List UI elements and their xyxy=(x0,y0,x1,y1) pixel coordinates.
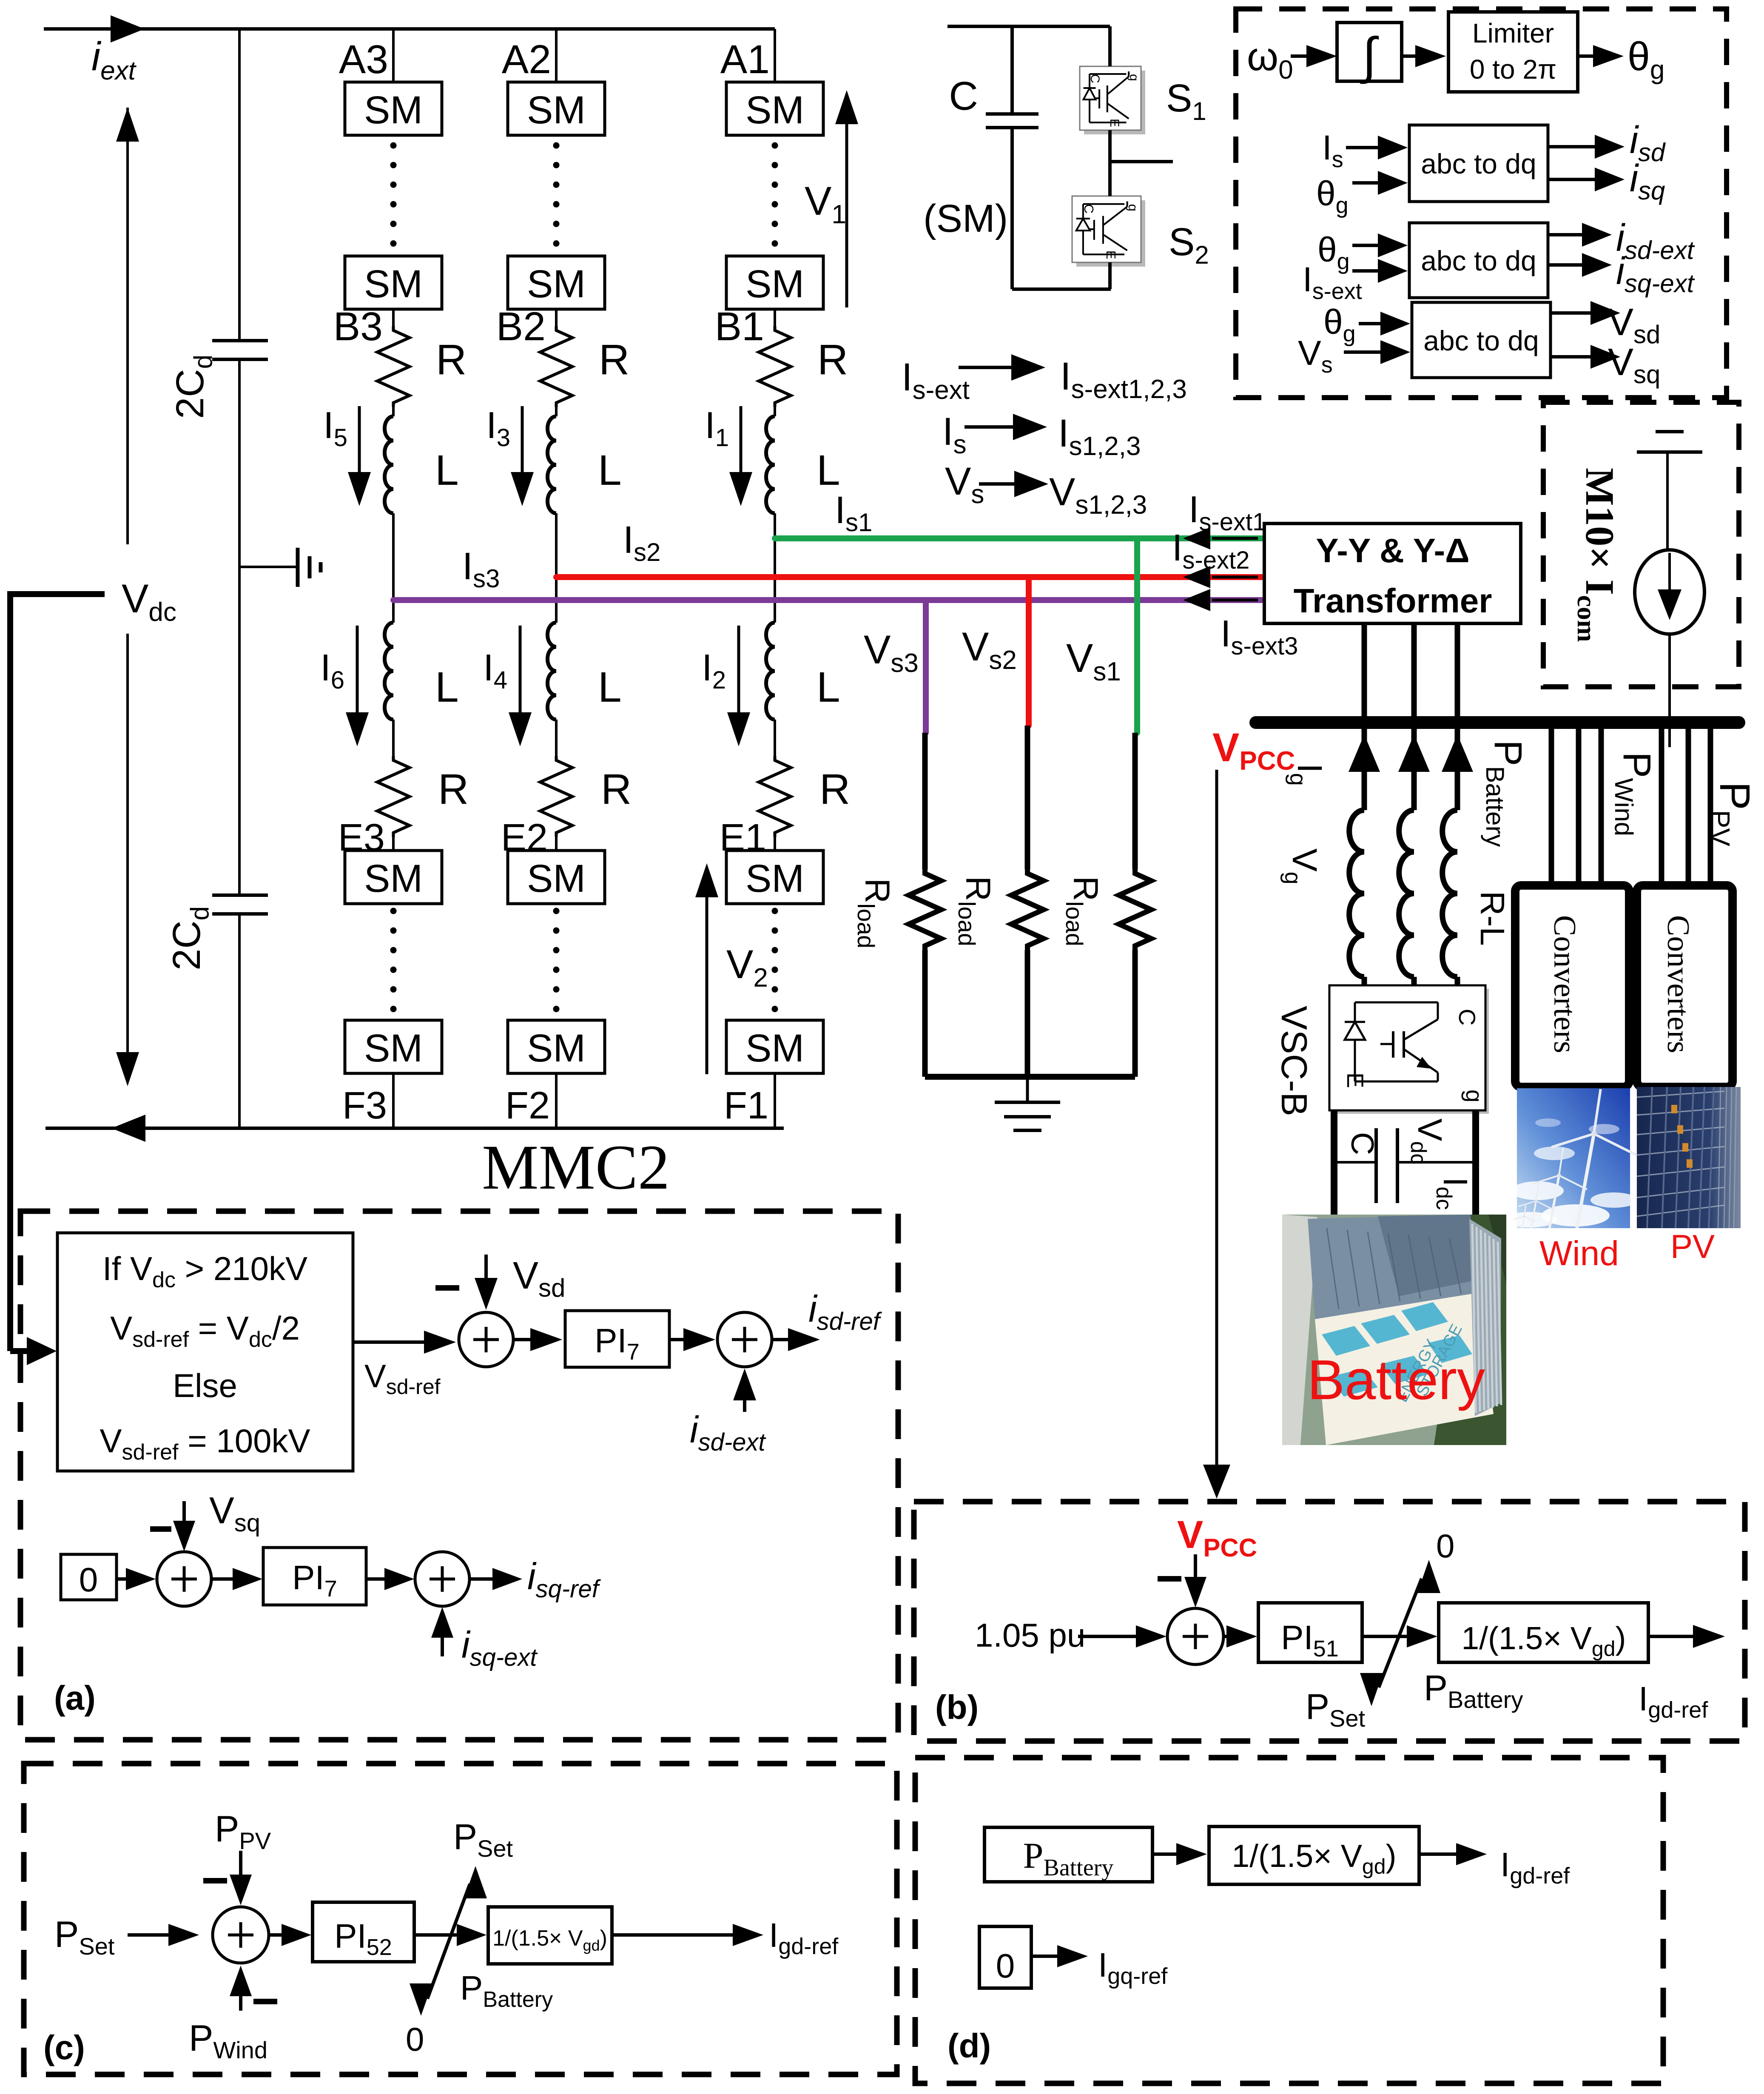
svg-text:SM: SM xyxy=(527,857,586,900)
svg-text:VSC-B: VSC-B xyxy=(1274,1006,1314,1116)
svg-text:F1: F1 xyxy=(724,1084,768,1127)
svg-text:SM: SM xyxy=(364,1027,423,1070)
svg-text:R: R xyxy=(599,336,629,384)
svg-text:SM: SM xyxy=(745,857,804,900)
svg-text:C: C xyxy=(1088,74,1102,83)
svg-text:B3: B3 xyxy=(333,304,383,349)
svg-text:R: R xyxy=(817,336,848,384)
svg-text:MMC2: MMC2 xyxy=(482,1132,670,1203)
svg-text:C: C xyxy=(1345,1132,1380,1155)
svg-text:C: C xyxy=(949,74,978,119)
svg-text:R: R xyxy=(601,765,632,813)
svg-text:abc to dq: abc to dq xyxy=(1421,245,1536,276)
svg-text:SM: SM xyxy=(527,262,586,306)
svg-text:F3: F3 xyxy=(342,1084,387,1127)
svg-text:E1: E1 xyxy=(720,817,766,859)
svg-text:B2: B2 xyxy=(496,304,546,349)
svg-text:Converters: Converters xyxy=(1547,915,1582,1053)
svg-text:SM: SM xyxy=(527,1027,586,1070)
svg-text:(a): (a) xyxy=(54,1679,96,1717)
svg-text:E: E xyxy=(1107,119,1121,127)
svg-text:A3: A3 xyxy=(339,37,388,82)
svg-text:(c): (c) xyxy=(43,2029,85,2066)
svg-text:0: 0 xyxy=(406,2020,424,2058)
svg-text:C: C xyxy=(1081,204,1096,213)
svg-text:SM: SM xyxy=(745,88,804,132)
svg-text:B1: B1 xyxy=(715,304,764,349)
svg-text:Limiter: Limiter xyxy=(1472,18,1554,48)
svg-text:R: R xyxy=(438,765,469,813)
svg-text:0: 0 xyxy=(1436,1527,1454,1565)
svg-text:L: L xyxy=(435,663,459,711)
svg-text:(SM): (SM) xyxy=(923,197,1008,240)
svg-text:L: L xyxy=(598,447,622,494)
svg-text:SM: SM xyxy=(364,88,423,132)
svg-text:A1: A1 xyxy=(720,37,770,82)
svg-text:E: E xyxy=(1104,250,1118,259)
svg-text:L: L xyxy=(817,663,840,711)
svg-text:g: g xyxy=(1126,204,1141,211)
svg-text:∫: ∫ xyxy=(1360,27,1379,84)
svg-text:L: L xyxy=(598,663,622,711)
svg-text:(d): (d) xyxy=(947,2027,991,2065)
svg-text:Transformer: Transformer xyxy=(1294,582,1492,620)
svg-text:L: L xyxy=(435,447,459,494)
svg-text:SM: SM xyxy=(527,88,586,132)
svg-text:R-L: R-L xyxy=(1474,891,1511,946)
svg-text:E3: E3 xyxy=(338,817,385,859)
svg-text:If Vdc > 210kV: If Vdc > 210kV xyxy=(102,1250,307,1292)
svg-text:Converters: Converters xyxy=(1661,915,1696,1053)
svg-text:R: R xyxy=(819,765,850,813)
svg-text:E2: E2 xyxy=(501,817,548,859)
svg-text:PV: PV xyxy=(1670,1228,1715,1265)
svg-text:Else: Else xyxy=(173,1367,237,1404)
svg-text:L: L xyxy=(817,447,840,494)
svg-text:(b): (b) xyxy=(935,1688,979,1726)
svg-text:g: g xyxy=(1127,74,1141,81)
svg-text:SM: SM xyxy=(745,1027,804,1070)
svg-text:Wind: Wind xyxy=(1539,1234,1619,1273)
svg-text:A2: A2 xyxy=(502,37,551,82)
svg-text:abc to dq: abc to dq xyxy=(1423,325,1539,356)
svg-text:0 to 2π: 0 to 2π xyxy=(1470,54,1556,85)
svg-text:0: 0 xyxy=(79,1561,98,1599)
svg-text:1.05 pu: 1.05 pu xyxy=(975,1616,1085,1654)
svg-text:E: E xyxy=(1342,1073,1369,1088)
svg-text:SM: SM xyxy=(364,857,423,900)
svg-text:C: C xyxy=(1454,1009,1480,1026)
svg-text:Battery: Battery xyxy=(1307,1349,1485,1411)
svg-text:g: g xyxy=(1461,1090,1488,1103)
svg-text:Y-Y & Y-Δ: Y-Y & Y-Δ xyxy=(1316,532,1469,569)
svg-text:abc to dq: abc to dq xyxy=(1421,148,1536,179)
svg-text:0: 0 xyxy=(996,1947,1015,1985)
svg-text:SM: SM xyxy=(364,262,423,306)
svg-text:R: R xyxy=(436,336,467,384)
svg-text:F2: F2 xyxy=(505,1084,550,1127)
svg-text:SM: SM xyxy=(745,262,804,306)
